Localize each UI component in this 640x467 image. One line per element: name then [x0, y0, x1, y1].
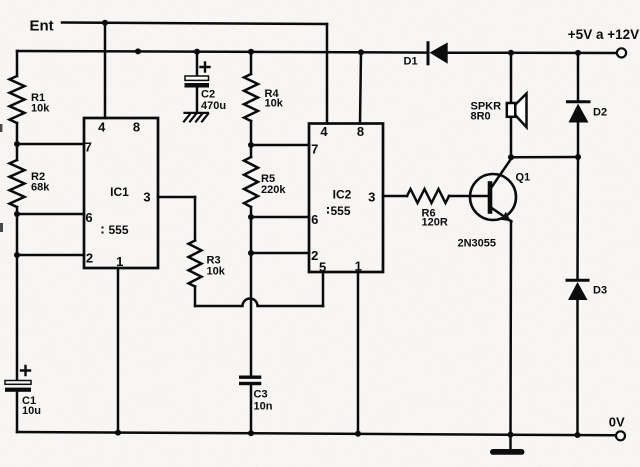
svg-text:120R: 120R — [422, 217, 448, 229]
node dot D2 — [575, 50, 581, 56]
wire Q1 emitter to ground rail — [509, 221, 512, 435]
node dot C3 — [248, 430, 254, 436]
terminal 0V — [616, 431, 625, 440]
svg-text:8: 8 — [133, 120, 140, 135]
node dot pin6 IC1 — [14, 211, 20, 217]
node dot speaker — [508, 50, 514, 56]
svg-text:IC2: IC2 — [333, 188, 352, 202]
svg-text:8: 8 — [357, 124, 364, 139]
wire to IC1 pin 7 — [17, 143, 84, 146]
svg-text:6: 6 — [85, 210, 92, 225]
wire R3 bottom — [194, 287, 197, 307]
capacitor C3 — [239, 376, 273, 434]
svg-text:D2: D2 — [593, 107, 607, 119]
wire IC2 pin1 to ground rail — [357, 272, 360, 434]
svg-text:470u: 470u — [201, 100, 226, 112]
svg-text:3: 3 — [368, 190, 375, 205]
wire R4 to pin7 node — [250, 121, 253, 157]
svg-text:2: 2 — [311, 248, 318, 263]
wire R1 to node — [16, 123, 19, 160]
capacitor C2 — [185, 52, 227, 113]
svg-text:C2: C2 — [201, 89, 215, 101]
IC1 box — [84, 118, 158, 268]
node dot C2 — [194, 49, 200, 55]
svg-text:8R0: 8R0 — [471, 111, 491, 123]
wire C1 to bottom rail — [16, 392, 19, 432]
wire to IC2 pin 2 — [251, 252, 309, 255]
wire to IC1 pin 2 — [17, 254, 84, 257]
node dot emitter — [508, 432, 514, 438]
svg-text:0V: 0V — [609, 414, 625, 429]
resistor R4 — [250, 52, 253, 74]
svg-text:6: 6 — [311, 212, 318, 227]
speaker SPKR — [471, 94, 527, 128]
svg-text:+5V a +12V: +5V a +12V — [568, 27, 639, 42]
svg-text:10k: 10k — [265, 98, 284, 110]
wire R6 to Q1 base — [449, 195, 488, 198]
wire collector junction to D2 column — [511, 156, 578, 159]
svg-text:3: 3 — [143, 190, 150, 205]
wire IC2 pin5 — [322, 272, 325, 306]
wire Ent to IC1 pin 4 — [104, 23, 107, 118]
resistor R3 — [189, 241, 202, 287]
diode D2 — [568, 53, 608, 157]
wire IC1 pin1 to ground rail — [117, 268, 120, 433]
svg-text:IC1: IC1 — [110, 185, 129, 199]
scan artifact marks left edge — [0, 124, 2, 132]
node dot pin8 IC2 — [358, 49, 364, 55]
ground chassis bar — [509, 435, 512, 450]
wire Ent top horizontal — [62, 23, 327, 25]
svg-text:10u: 10u — [22, 405, 41, 417]
svg-text:D1: D1 — [404, 56, 418, 68]
node dot collector junction — [508, 154, 514, 160]
node dot D2 bottom junction — [575, 154, 581, 160]
resistor R2 — [10, 160, 25, 207]
svg-text:C3: C3 — [254, 389, 268, 401]
wire left rail upper — [16, 51, 19, 76]
node dot pin6 IC2 — [248, 214, 254, 220]
wire to IC2 pin 7 — [251, 144, 309, 147]
node dot R4 — [248, 49, 254, 55]
diode D3 — [567, 157, 607, 435]
wire R3 to IC2 pin5 with hop — [195, 299, 323, 306]
wire VCC rail right of D1 — [448, 51, 617, 54]
resistor R6 — [407, 189, 449, 203]
node dot D3 — [575, 432, 581, 438]
node dot pin7 IC2 — [248, 142, 254, 148]
wire R5 down to C3 — [250, 207, 253, 376]
svg-text:2: 2 — [86, 251, 93, 266]
capacitor C1 — [5, 366, 41, 417]
ground earth symbol under C2 — [184, 113, 208, 122]
node Ent junction dot — [102, 20, 108, 26]
IC2 box — [309, 124, 383, 273]
svg-text:Q1: Q1 — [516, 172, 531, 184]
svg-text:7: 7 — [85, 140, 92, 155]
wire down to R3 — [194, 197, 197, 241]
wire to IC1 pin 6 — [17, 213, 84, 216]
wire to IC2 pin 6 — [251, 216, 309, 219]
svg-text:7: 7 — [311, 142, 318, 157]
svg-text:2N3055: 2N3055 — [458, 238, 497, 250]
svg-text:4: 4 — [320, 124, 328, 139]
svg-text:10k: 10k — [207, 266, 226, 278]
wire VCC to IC2 pin 8 — [360, 52, 361, 123]
terminal +5V — [617, 48, 626, 57]
svg-text:220k: 220k — [261, 184, 286, 196]
node dot IC2 pin1 — [355, 431, 361, 437]
svg-text:10k: 10k — [31, 103, 50, 115]
wire IC2 pin3 out — [383, 195, 407, 198]
svg-text:Ent: Ent — [30, 18, 54, 35]
wire speaker branch vertical — [510, 53, 513, 157]
node dot pin2 IC2 — [248, 250, 254, 256]
node dot pin7 IC1 — [14, 141, 20, 147]
svg-text:555: 555 — [330, 204, 350, 218]
wire ground rail — [17, 432, 616, 435]
node dot pin2 IC1 — [14, 252, 20, 258]
wire VCC rail left of D1 — [17, 51, 428, 53]
wire R2 down left rail — [16, 207, 19, 380]
wire Ent to IC2 pin 4 — [326, 24, 329, 124]
svg-text:555: 555 — [108, 223, 128, 237]
svg-text:4: 4 — [98, 120, 106, 135]
node dot IC1 pin1 — [115, 430, 121, 436]
resistor R1 — [10, 76, 25, 123]
svg-text:D3: D3 — [593, 285, 607, 297]
svg-text:68k: 68k — [31, 182, 50, 194]
svg-text:10n: 10n — [254, 401, 273, 413]
wire IC1 pin3 out — [158, 196, 195, 199]
resistor R5 — [244, 157, 258, 207]
svg-text:R3: R3 — [207, 255, 221, 267]
diode D1 — [404, 42, 448, 67]
transistor Q1 — [458, 159, 531, 250]
node dot pin8 IC1 — [135, 48, 141, 54]
